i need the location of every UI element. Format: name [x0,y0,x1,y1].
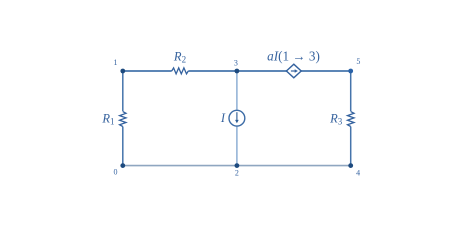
wire R2 to node5 (top) [188,70,350,72]
resistor R1 [120,112,126,127]
resistor R3 [348,112,355,127]
svg-text:R2: R2 [173,49,186,64]
wire left branch lower (to node0) [122,127,124,166]
svg-text:R3: R3 [329,111,343,126]
svg-text:5: 5 [356,57,360,66]
wire right branch upper (node5 down) [350,71,352,111]
svg-text:I: I [220,111,226,125]
svg-text:0: 0 [114,167,118,176]
wire middle branch (node3 to node2) [236,71,238,166]
current source I arrow [236,112,238,120]
svg-text:3: 3 [234,58,238,67]
wire right branch lower (to node4) [350,127,352,166]
dependent current source U1 diamond aI(1->3) [286,64,301,78]
node 2 dot [235,163,240,168]
svg-text:4: 4 [356,168,360,177]
svg-text:1: 1 [114,58,118,67]
wire left branch upper (node1 down) [122,71,124,111]
current source I circle [229,110,245,126]
node 3 dot [235,69,240,74]
svg-text:2: 2 [235,169,239,178]
wire bottom rail (node0 to node4) [123,165,351,167]
node 0 dot [120,163,125,168]
node 4 dot [348,163,353,168]
wire node1 to R2 (top left) [123,70,172,72]
node 5 dot [348,69,353,74]
resistor R2 [172,68,189,74]
svg-text:R1: R1 [101,111,114,126]
node 1 dot [120,69,125,74]
svg-text:aI(1 → 3): aI(1 → 3) [267,48,320,63]
